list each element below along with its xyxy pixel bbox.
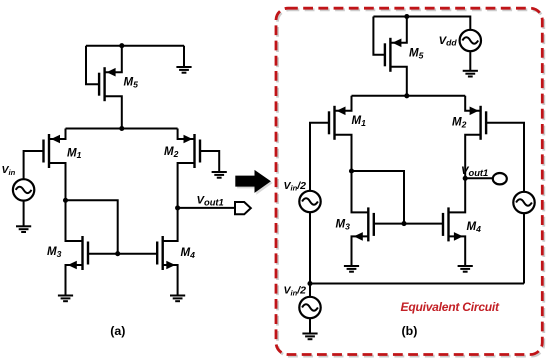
wire rail M1-M2 (b) xyxy=(352,95,466,97)
arrow a-to-b xyxy=(235,170,272,195)
source Vin/2 lower (b) xyxy=(299,297,320,318)
wire Vdd to ground (b) xyxy=(469,51,471,71)
wire Vin to ground (a) xyxy=(23,200,25,226)
wire between sources (b) xyxy=(309,212,311,284)
transistor M3 (b) xyxy=(352,171,374,266)
ground (M2 gate a) xyxy=(212,172,227,178)
wire top rail (a) xyxy=(86,45,184,47)
node rail junction (b) xyxy=(404,93,409,98)
svg-text:M5: M5 xyxy=(409,48,424,61)
dashed border (b) xyxy=(276,8,544,356)
transistor M4 (a) xyxy=(157,208,177,296)
svg-text:Vout1: Vout1 xyxy=(197,195,224,208)
ground (bottom left b) xyxy=(302,334,317,340)
node rail junction (a) xyxy=(119,126,124,131)
wire gate rail M3-M4 (b) xyxy=(374,223,443,225)
svg-text:Vout1: Vout1 xyxy=(461,165,488,178)
wire cross-couple (b) xyxy=(352,171,405,224)
transistor M3 (a) xyxy=(66,200,89,295)
svg-text:Vdd: Vdd xyxy=(439,35,458,48)
ground (below M4 b) xyxy=(458,266,473,272)
wire M5a gate feedback xyxy=(86,46,99,84)
svg-text:(b): (b) xyxy=(402,324,418,338)
wire M2a gate to ground xyxy=(200,151,219,172)
node top rail junction (b) xyxy=(404,14,409,19)
wire Vout1 (b) xyxy=(465,177,494,179)
node gate rail junction (b) xyxy=(401,221,406,226)
wire right source to rail (b) xyxy=(523,213,525,284)
node bottom rail junction (b) xyxy=(307,281,312,286)
svg-text:M3: M3 xyxy=(47,246,62,259)
ground (below Vdd b) xyxy=(463,71,478,77)
wire M2b gate to source (b) xyxy=(486,123,524,192)
wire rail M1-M2 (a) xyxy=(66,128,178,130)
wire M5b gate feedback xyxy=(373,17,385,55)
transistor M4 (b) xyxy=(443,178,465,266)
svg-text:Equivalent Circuit: Equivalent Circuit xyxy=(401,300,501,314)
node M1 source / M3 drain (a) xyxy=(63,198,68,203)
svg-text:M3: M3 xyxy=(336,219,351,232)
ground (top right of a) xyxy=(176,67,191,73)
svg-text:M2: M2 xyxy=(164,146,179,159)
wire lower source to ground (b) xyxy=(309,284,311,334)
output connector Vout1 (a) xyxy=(235,202,251,214)
svg-text:M4: M4 xyxy=(181,247,196,260)
wire M1b gate to Vin/2 xyxy=(310,123,329,191)
svg-text:M2: M2 xyxy=(452,117,467,130)
source Vdd (b) xyxy=(460,30,481,51)
wire Vout1 (a) xyxy=(178,207,235,209)
wire top rail (b) xyxy=(373,17,470,31)
terminal Vout1 (b) xyxy=(493,173,507,184)
svg-text:(a): (a) xyxy=(110,324,125,338)
ground (below Vin a) xyxy=(16,226,31,232)
transistor M2 (a) xyxy=(178,129,200,208)
wire M1a gate to Vin xyxy=(24,151,44,180)
source Vin/2 upper (b) xyxy=(299,191,320,212)
node top rail junction (a) xyxy=(119,43,124,48)
svg-text:M1: M1 xyxy=(352,115,367,128)
wire top-rail to ground (a) xyxy=(183,46,185,67)
transistor M5 (b) xyxy=(385,17,407,96)
transistor M2 (b) xyxy=(465,96,486,179)
source Vin (a) xyxy=(13,179,34,200)
ground (below M4 a) xyxy=(170,296,185,302)
wire bottom rail (b) xyxy=(310,283,524,285)
svg-text:M5: M5 xyxy=(124,77,139,90)
transistor M5 (a) xyxy=(99,46,122,129)
svg-text:M1: M1 xyxy=(67,147,82,160)
svg-text:M4: M4 xyxy=(467,221,482,234)
node gate rail junction (a) xyxy=(115,251,120,256)
ground (below M3 a) xyxy=(58,296,73,302)
wire cross-couple (a) xyxy=(66,200,118,253)
source right (b) xyxy=(513,192,534,213)
transistor M1 (a) xyxy=(44,129,66,201)
node Vout1 (b) xyxy=(463,176,468,181)
transistor M1 (b) xyxy=(329,96,352,171)
node M1 source / M3 drain (b) xyxy=(349,168,354,173)
node Vout1 (a) xyxy=(175,205,180,210)
wire gate rail M3-M4 (a) xyxy=(88,253,157,255)
ground (below M3 b) xyxy=(344,266,359,272)
